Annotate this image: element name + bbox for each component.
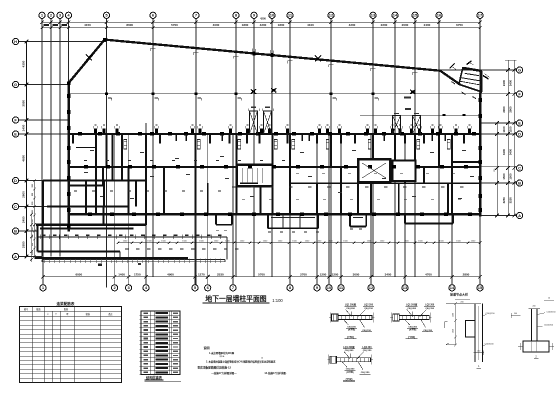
svg-text:16: 16 (437, 13, 442, 18)
svg-text:1500: 1500 (502, 173, 506, 180)
svg-text:C8@150: C8@150 (364, 308, 373, 310)
detail section 2: side arrows (518, 346, 523, 348)
detail (Y50): dimension ticks (329, 317, 332, 319)
axis bubble F (left) (13, 117, 19, 123)
detail (Y50): leader labels bottom (344, 320, 349, 326)
local dimension ticks left of pump room (31, 214, 33, 261)
axis bubble E (left) (13, 131, 19, 137)
column dots on axis line y=93.7 (105, 92, 108, 95)
corner column blobs (103, 38, 106, 41)
table: beam schedule data row lines (20, 320, 122, 322)
axis bubble C (right) (517, 165, 523, 171)
svg-text:A: A (14, 254, 17, 259)
detail section 1: wall verticals (474, 304, 476, 363)
svg-text:C8@200: C8@200 (346, 308, 355, 310)
ramp strip lower-left (42, 258, 225, 260)
svg-text:—结施17大样图详图—: —结施17大样图详图— (211, 371, 237, 375)
svg-text:2400: 2400 (424, 23, 431, 27)
svg-text:1400: 1400 (118, 273, 125, 277)
wall row R2 (y=167) (68, 166, 481, 168)
axis bubble 9 (bottom) (314, 285, 320, 291)
stair core B (358, 159, 390, 182)
detail section 1: left step (466, 321, 476, 338)
svg-text:1:100: 1:100 (272, 298, 283, 303)
svg-text:2200: 2200 (381, 23, 388, 27)
walls: stubs below R1 (72, 134, 74, 144)
detail (Y60): end column square (393, 314, 400, 321)
axis bubble 8 (top) (233, 12, 239, 18)
axis bubble 3 (top) (57, 12, 63, 18)
svg-text:4150: 4150 (84, 23, 91, 27)
table: level schedule frame (141, 311, 180, 375)
detail section 1: dim chain (455, 304, 457, 346)
svg-text:3250: 3250 (502, 197, 506, 204)
svg-text:14: 14 (450, 285, 455, 290)
axis bubble 4 (top) (65, 12, 71, 18)
small stub walls below R1 extra (175, 134, 177, 141)
detail section 2: top ticks (529, 308, 541, 310)
svg-text:2550: 2550 (21, 241, 25, 248)
wall row bottom R3 (y=214.3) (68, 213, 481, 216)
axis bubble 11 (top) (287, 12, 293, 18)
table: beam schedule frame (20, 307, 122, 383)
svg-text:4900: 4900 (167, 273, 174, 277)
left zone wall y=185.5 (69, 185, 103, 187)
svg-text:12: 12 (369, 285, 374, 290)
wall row R1 (y=134) (68, 133, 481, 135)
detail section 1: arrow (446, 344, 456, 346)
svg-text:2900: 2900 (509, 106, 513, 113)
pier blocks on wall row R2 (84, 165, 88, 168)
table: beam schedule header rows (20, 310, 122, 312)
dimension chain right outer (507, 60, 509, 216)
svg-text:10: 10 (327, 285, 332, 290)
column marks on top diagonal at axes 9 and 10 (252, 51, 255, 55)
svg-text:8%: 8% (494, 168, 496, 171)
svg-text:C10@200: C10@200 (544, 325, 554, 327)
svg-text:1500: 1500 (453, 313, 455, 317)
annex dimension tick marks (450, 64, 455, 69)
axis bubble D (left) (13, 177, 19, 183)
svg-text:地下一层墙柱平面图: 地下一层墙柱平面图 (205, 294, 266, 303)
dimension text row inside plan y=160 (84, 159, 87, 162)
svg-text:4650: 4650 (21, 155, 25, 162)
axis bubble 15 (bottom) (477, 285, 483, 291)
svg-text:(Y52): (Y52) (346, 377, 353, 381)
detailed dimension chain bottom (118, 242, 480, 244)
wall row R2c right (y=183) (290, 182, 479, 184)
svg-text:E: E (518, 120, 521, 125)
svg-text:G: G (14, 82, 17, 87)
svg-text:13: 13 (371, 13, 376, 18)
svg-text:4100: 4100 (307, 23, 314, 27)
column X-marks near y=91 (251, 89, 256, 93)
dimension text row inside plan y=190 (74, 190, 77, 191)
detail (Y52): wall bar (337, 358, 371, 362)
tall hatched columns above R1 right side (393, 116, 401, 134)
svg-text:(Y60): (Y60) (408, 335, 415, 339)
svg-text:5700: 5700 (258, 273, 265, 277)
detail (Y60): dimension ticks (390, 317, 393, 319)
svg-text:连梁配筋表: 连梁配筋表 (56, 301, 75, 306)
detail (Y52): end column square (330, 356, 337, 363)
axis bubble 9 (top) (251, 12, 257, 18)
svg-text:500: 500 (514, 313, 517, 315)
svg-text:1750: 1750 (134, 273, 141, 277)
wall pier clusters above R1 (94, 129, 97, 133)
axis bubble B (left) (13, 228, 19, 234)
small marks along diagonal crossings (151, 47, 156, 49)
svg-text:3400: 3400 (502, 148, 506, 155)
svg-text:泵房顶板配筋图详见结施-12: 泵房顶板配筋图详见结施-12 (198, 366, 232, 370)
axis bubble G (left) (13, 81, 19, 87)
pier blocks on wall row R3 (88, 213, 92, 216)
svg-text:1500: 1500 (509, 173, 513, 180)
hatched label rects beside interior verticals (124, 140, 127, 150)
axis bubble 5 (bottom) (192, 285, 198, 291)
dimension text row inside plan y=187 (232, 187, 235, 188)
svg-text:2400: 2400 (509, 79, 513, 86)
axis bubble G (right) (517, 67, 523, 73)
axis bubble 1 (bottom) (40, 285, 46, 291)
wall: right exterior vertical (479, 93, 481, 217)
dimension line bottom (43, 276, 480, 278)
svg-text:下: 下 (55, 313, 57, 316)
axis bubble 16 (top) (436, 12, 442, 18)
svg-text:14: 14 (548, 297, 550, 299)
detail section 2: base footing (523, 341, 549, 352)
dimension line top (42, 21, 480, 23)
svg-text:C8@200: C8@200 (407, 308, 416, 310)
column X-mark on left diagonal wall (86, 55, 92, 61)
svg-text:200: 200 (533, 306, 536, 308)
svg-text:1100: 1100 (509, 126, 513, 133)
walls: lower-left block (36, 224, 146, 226)
svg-text:C10@200: C10@200 (484, 343, 494, 345)
svg-text:E: E (14, 131, 17, 136)
left zone vertical x=103 (102, 167, 104, 186)
axis bubble 2 (bottom) (112, 285, 118, 291)
svg-text:200: 200 (460, 301, 463, 303)
table: level schedule rows and values (141, 314, 180, 316)
svg-text:结构层高表: 结构层高表 (146, 375, 163, 380)
tiny interior wall labels (90, 150, 94, 151)
svg-text:4200: 4200 (349, 23, 356, 27)
axis bubble 2 (top) (48, 12, 54, 18)
detail (Y52): dimension ticks (328, 359, 331, 361)
axis bubble 13 (bottom) (402, 285, 408, 291)
svg-text:14: 14 (261, 358, 263, 360)
svg-text:250: 250 (477, 351, 480, 353)
wall: left exterior vertical (67, 82, 69, 232)
detail (Y50): wall bar (338, 316, 372, 320)
svg-text:1270: 1270 (198, 273, 205, 277)
detail section 1: top line (446, 303, 481, 305)
extra left-zone room verticals (85, 181, 87, 207)
wall: left zone verticals (42, 181, 44, 227)
dimension numbers above lower-left ticked line (42, 235, 46, 236)
axis bubble C (left) (13, 203, 19, 209)
svg-text:17: 17 (478, 13, 483, 18)
detail section 1: bottom ticks (474, 352, 485, 354)
svg-text:C8@150: C8@150 (425, 308, 434, 310)
svg-text:C: C (518, 165, 521, 170)
dimension chain right inner (496, 123, 498, 216)
stair flight lines inside core A (241, 168, 243, 183)
svg-text:1200: 1200 (332, 273, 339, 277)
detail (Y60): leader labels bottom (405, 320, 410, 326)
svg-text:13: 13 (403, 285, 408, 290)
svg-text:(Y50): (Y50) (347, 335, 354, 339)
column stubs on y=115.6 line (442, 114, 445, 116)
pier blocks on wall row R1 (78, 132, 82, 135)
wall row R4 left rooms (y=206.6) (47, 206, 129, 208)
svg-text:2530: 2530 (217, 273, 224, 277)
wall: top-left diagonal (69, 40, 105, 83)
svg-text:G: G (518, 67, 521, 72)
svg-text:4200: 4200 (260, 16, 266, 20)
detail section 2: left dim (511, 315, 521, 317)
axis bubble 14 (bottom) (449, 285, 455, 291)
axis bubble 5 (top) (103, 12, 109, 18)
axis bubble 6 (bottom) (205, 285, 211, 291)
axis bubble B (right) (517, 180, 523, 186)
svg-text:2700: 2700 (300, 273, 307, 277)
svg-text:14-结施17大样详图.: 14-结施17大样详图. (264, 371, 286, 375)
axis bubble 1 (top) (39, 12, 45, 18)
svg-text:D: D (14, 178, 17, 183)
svg-text:2600: 2600 (21, 191, 25, 198)
annex thick connector wall (440, 71, 460, 85)
svg-text:3250: 3250 (509, 197, 513, 204)
secondary left dimension chain (lower rooms) (34, 181, 36, 257)
pit box B1 below R3 (215, 214, 217, 224)
axis bubble A (right) (517, 212, 523, 218)
dimension line top second chain (42, 27, 480, 29)
svg-text:3550: 3550 (21, 100, 25, 107)
svg-text:坡道节点大样: 坡道节点大样 (450, 292, 468, 297)
svg-text:C10@150: C10@150 (485, 313, 495, 315)
svg-text:15: 15 (478, 285, 483, 290)
axis bubble 14 (top) (392, 12, 398, 18)
svg-text:C10@150: C10@150 (546, 311, 556, 313)
detail (Y60): wall bar (399, 316, 429, 320)
left small room walls near x=68-112 y=140-166 (76, 147, 96, 149)
svg-text:2400: 2400 (502, 79, 506, 86)
svg-text:5700: 5700 (171, 23, 178, 27)
svg-text:10: 10 (270, 13, 275, 18)
svg-text:说明: 说明 (203, 345, 209, 350)
pit box B3 below R3 (349, 214, 351, 226)
svg-text:1800: 1800 (242, 23, 249, 27)
misc bracket mark (444, 322, 446, 328)
axis bubble 13 (top) (370, 12, 376, 18)
wall: top long diagonal (105, 40, 441, 71)
svg-text:C8@150: C8@150 (363, 350, 372, 352)
pit box B2 below R3 (267, 214, 269, 228)
svg-text:3400: 3400 (509, 148, 513, 155)
axis bubble A (left) (13, 253, 19, 259)
svg-text:4700: 4700 (425, 273, 432, 277)
axis bubble 6 (top) (150, 12, 156, 18)
axis bubble 15 (top) (412, 12, 418, 18)
dimension numbers row y=248.6 lower-left (125, 248, 128, 249)
svg-text:C: C (14, 204, 17, 209)
tall hatched columns above R1 at stair core (250, 111, 258, 134)
axis bubble 10 (bottom) (326, 285, 332, 291)
svg-text:A: A (518, 213, 521, 218)
svg-text:8600: 8600 (126, 23, 133, 27)
detail (Y50): end column square (332, 314, 339, 321)
pier blocks on right exterior wall (479, 98, 483, 102)
grid vertical lines (41, 19, 43, 257)
ramp retaining wall dark bar (35, 257, 188, 259)
axis bubble 7 (top) (193, 12, 199, 18)
walls: interior verticals between R1 and R2 (106, 134, 108, 167)
axis bubble 10 (top) (269, 12, 275, 18)
pit box B4 below R3 (404, 216, 406, 224)
svg-text:B: B (14, 228, 17, 233)
column X-mark on top wall (315, 56, 321, 62)
svg-text:1.未注明墙厚均为200厚: 1.未注明墙厚均为200厚 (209, 351, 235, 355)
axis bubble 12 (top) (328, 12, 334, 18)
svg-text:2800: 2800 (463, 273, 470, 277)
svg-text:6750: 6750 (456, 23, 463, 27)
svg-text:1650: 1650 (453, 329, 455, 333)
axis bubble 17 (top) (477, 12, 483, 18)
svg-text:B: B (518, 180, 521, 185)
grid horizontal lines (19, 41, 107, 43)
svg-text:H: H (14, 39, 17, 44)
stair core A (237, 165, 273, 186)
axis bubble 3 (bottom) (126, 285, 132, 291)
stair flight lines inside core B (362, 163, 386, 178)
axis bubble 8 (bottom) (287, 285, 293, 291)
svg-text:1200: 1200 (320, 273, 327, 277)
svg-text:2000: 2000 (402, 23, 409, 27)
detail (Y52): leader labels bottom (342, 362, 347, 368)
svg-text:1100: 1100 (502, 126, 506, 133)
svg-text:4200: 4200 (260, 23, 267, 27)
detail section 2: wall verticals (531, 309, 533, 342)
annex tilted room (top right) (459, 68, 482, 92)
svg-text:4000: 4000 (213, 23, 220, 27)
dimension text row inside plan y=199 (242, 198, 245, 201)
dimension chain left (26, 42, 28, 257)
svg-text:1400: 1400 (21, 124, 25, 131)
svg-text:3400: 3400 (385, 273, 392, 277)
svg-text:2900: 2900 (502, 106, 506, 113)
axis bubble 4 (bottom) (143, 285, 149, 291)
stair core C (393, 161, 416, 182)
axis bubble D (right) (517, 131, 523, 137)
left block vertical walls x=103.5 and x=146 (103, 207, 105, 225)
svg-text:6000: 6000 (75, 273, 82, 277)
axis bubble H (left) (13, 38, 19, 44)
wall row R2b left (y=180.5) (43, 180, 146, 182)
svg-text:4350: 4350 (21, 60, 25, 67)
axis bubble 11 (bottom) (338, 285, 344, 291)
axis bubble 12 (bottom) (368, 285, 374, 291)
dimension text row inside plan y=173 (296, 172, 299, 175)
axis bubble E (right) (517, 120, 523, 126)
svg-text:D: D (518, 131, 521, 136)
wall y=183 left segment (240, 182, 258, 184)
small labels row below B boxes (216, 229, 219, 232)
axis bubble 7 (bottom) (230, 285, 236, 291)
svg-text:2450: 2450 (21, 216, 25, 223)
svg-text:C8@200: C8@200 (345, 350, 354, 352)
svg-text:1800: 1800 (278, 23, 285, 27)
walls: interior verticals between R2 and R3 (95, 167, 97, 215)
svg-text:14: 14 (393, 13, 398, 18)
wall: annex connector (479, 91, 482, 95)
axis bubble F (right) (517, 91, 523, 97)
svg-text:12: 12 (329, 13, 334, 18)
upper-right room wall (452, 161, 480, 163)
pier blocks on left exterior wall (67, 94, 71, 98)
svg-text:3000: 3000 (353, 273, 360, 277)
svg-text:15: 15 (413, 13, 418, 18)
